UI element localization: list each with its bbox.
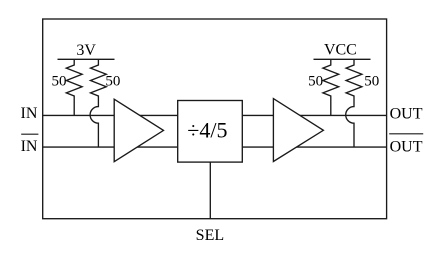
- svg-text:÷4/5: ÷4/5: [187, 118, 227, 143]
- svg-text:50: 50: [364, 73, 379, 89]
- svg-text:OUT: OUT: [390, 106, 423, 123]
- svg-text:3V: 3V: [76, 42, 96, 59]
- svg-text:IN: IN: [21, 105, 38, 122]
- outer box (IC boundary): [43, 19, 387, 219]
- op-amp buffer U3 (output amplifier triangle): [273, 99, 323, 162]
- svg-text:SEL: SEL: [196, 227, 224, 244]
- svg-text:50: 50: [105, 73, 120, 89]
- wire: IN-bar bottom signal line: [43, 146, 387, 148]
- wire: SEL control line: [209, 162, 211, 219]
- 3V power rail bar: [58, 58, 115, 60]
- overline of OUT-bar label: [389, 133, 423, 135]
- divider block U2 (divide-by-4/5 box): [178, 101, 243, 163]
- op-amp buffer U1 (input amplifier triangle): [114, 99, 163, 162]
- resistor 50 (3V left, to IN line): [66, 59, 82, 115]
- svg-text:50: 50: [308, 73, 323, 89]
- svg-text:IN: IN: [21, 138, 38, 155]
- overline of IN-bar label: [21, 133, 38, 135]
- VCC power rail bar: [314, 58, 371, 60]
- svg-text:OUT: OUT: [390, 139, 423, 156]
- svg-text:VCC: VCC: [324, 42, 357, 59]
- resistor 50 (VCC left, to OUT line): [323, 59, 339, 115]
- svg-text:50: 50: [52, 73, 67, 89]
- resistor 50 (VCC right, hops OUT line, to OUT-bar line): [346, 59, 362, 147]
- wire: IN top signal line: [43, 114, 387, 116]
- resistor 50 (3V right, hops IN line, to IN-bar line): [90, 59, 106, 147]
